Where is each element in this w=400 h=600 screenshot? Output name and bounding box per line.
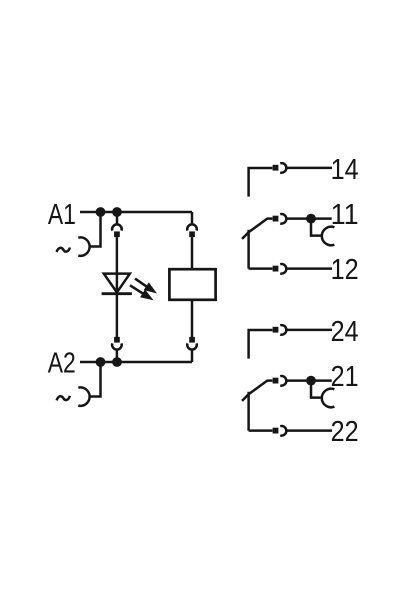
wire coil top lead: [191, 237, 194, 269]
junction dot: [112, 357, 122, 367]
svg-text:22: 22: [331, 416, 359, 448]
wire contact 24: [249, 330, 273, 359]
svg-text:11: 11: [331, 199, 359, 231]
AC input socket arc lower: [78, 387, 89, 405]
plug socket (female) contact 21: [280, 376, 286, 386]
svg-text:24: 24: [331, 316, 359, 348]
junction dot: [112, 207, 122, 217]
wire test socket stub 11: [311, 222, 323, 236]
LED emission arrow 1: [135, 279, 147, 287]
junction dot: [96, 207, 106, 217]
AC symbol ~: [57, 248, 70, 253]
plug pin (male) contact 11: [273, 216, 279, 222]
plug pin (male) contact 24: [273, 327, 279, 333]
plug socket (female) coil branch top: [187, 224, 197, 230]
test socket arc 11: [322, 227, 335, 246]
plug pin (male) LED branch top: [114, 231, 120, 237]
plug socket (female) contact 12: [280, 264, 286, 274]
wire to terminal 22: [287, 429, 333, 432]
svg-text:A1: A1: [48, 199, 76, 231]
wire common pole upper: [247, 230, 250, 269]
wire LED branch to A2 rail: [116, 350, 119, 362]
changeover contact arm lower: [242, 381, 267, 401]
wire coil branch to A2 rail: [191, 350, 194, 362]
plug pin (male) coil branch top: [189, 231, 195, 237]
plug pin (male) contact 12: [273, 266, 279, 272]
wire LED anode: [116, 237, 119, 294]
plug socket (female) contact 11: [280, 214, 286, 224]
wire to terminal 12: [287, 267, 333, 270]
wire A1 to AC socket: [90, 212, 101, 247]
plug pin (male) contact 14: [273, 165, 279, 171]
AC symbol ~ lower: [57, 396, 70, 401]
test socket arc 21: [322, 389, 335, 408]
wire contact 21: [267, 379, 272, 382]
LED cathode bar: [102, 292, 132, 295]
plug socket (female) coil branch bottom: [187, 343, 197, 349]
wire test socket stub 21: [311, 384, 323, 398]
LED diode triangle: [104, 274, 130, 293]
wire contact 22: [249, 429, 273, 432]
wire contact 11: [267, 217, 272, 220]
wire contact 14: [249, 168, 273, 197]
wire to terminal 24: [287, 329, 333, 332]
wire A2 to AC socket: [90, 362, 101, 397]
plug pin (male) coil branch bottom: [189, 337, 195, 343]
LED emission arrow 2: [130, 285, 143, 294]
plug socket (female) contact 22: [280, 426, 286, 436]
svg-text:14: 14: [331, 154, 359, 186]
svg-text:A2: A2: [48, 347, 76, 379]
wire coil branch top: [191, 212, 194, 224]
svg-text:12: 12: [331, 254, 359, 286]
plug pin (male) contact 22: [273, 428, 279, 434]
svg-text:21: 21: [331, 361, 359, 393]
plug socket (female) LED branch top: [112, 224, 122, 230]
wire LED cathode down: [116, 294, 119, 337]
plug pin (male) contact 21: [273, 378, 279, 384]
plug socket (female) LED branch bottom: [112, 343, 122, 349]
AC input socket arc: [78, 237, 89, 255]
wire coil bottom lead: [191, 301, 194, 337]
junction dot: [96, 357, 106, 367]
changeover contact arm upper: [242, 219, 267, 239]
wire A1 rail: [80, 211, 192, 214]
wire contact 12: [249, 267, 273, 270]
wire to terminal 21: [287, 379, 332, 382]
relay coil K1: [169, 269, 215, 300]
plug pin (male) LED branch bottom: [114, 337, 120, 343]
junction dot terminal 21: [306, 376, 316, 386]
wire common pole lower: [247, 392, 250, 431]
plug socket (female) contact 24: [280, 325, 286, 335]
plug socket (female) contact 14: [280, 163, 286, 173]
wire A1 to LED plug: [116, 212, 119, 224]
junction dot terminal 11: [306, 214, 316, 224]
wire A2 rail: [80, 361, 192, 364]
wire to terminal 14: [287, 167, 333, 170]
wire to terminal 11: [287, 217, 332, 220]
